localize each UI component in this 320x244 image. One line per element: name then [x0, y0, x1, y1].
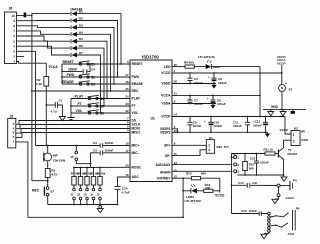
capacitor C12 100uF — [253, 117, 268, 133]
svg-text:P6: P6 — [296, 207, 300, 211]
wire REC net elbow — [32, 180, 48, 182]
wire ANAIN — [172, 170, 232, 172]
svg-text:K2: K2 — [294, 127, 298, 131]
wire VSSA row — [172, 103, 216, 105]
svg-text:PLAY: PLAY — [132, 97, 141, 101]
pushbutton S4 PLAY — [75, 94, 105, 101]
svg-text:P1: P1 — [289, 88, 293, 92]
wire SP+ — [172, 144, 206, 146]
svg-text:J3: J3 — [84, 193, 87, 197]
svg-text:J4: J4 — [90, 193, 93, 197]
svg-text:VCCP: VCCP — [280, 128, 288, 132]
resistor R4 10k — [71, 168, 80, 189]
wire J5 bottom to MIC- net — [76, 153, 130, 164]
svg-text:LED: LED — [164, 65, 171, 69]
wire mic top — [47, 146, 49, 154]
capacitor C1 4.7u — [46, 99, 62, 117]
svg-text:P4: P4 — [293, 179, 297, 183]
wire R13 to VCCD node — [201, 178, 220, 192]
resistor R6 10k — [84, 168, 93, 189]
svg-text:J5: J5 — [97, 193, 100, 197]
svg-text:25: 25 — [125, 87, 129, 91]
svg-text:D4: D4 — [79, 30, 83, 34]
wire button common left (RESET-ERASE) — [61, 64, 63, 84]
svg-text:ANAIN: ANAIN — [160, 171, 171, 175]
wire FT row — [71, 105, 130, 107]
capacitor C2 100nF — [93, 141, 114, 148]
svg-text:RESET: RESET — [132, 62, 143, 66]
wire D5 to PLAY net — [77, 41, 107, 98]
wire VCCA row — [172, 94, 260, 96]
wire VSSP2 bus — [172, 131, 268, 133]
svg-text:MIC+: MIC+ — [132, 144, 140, 148]
ground (VSSP bus) — [265, 133, 270, 137]
svg-text:C4: C4 — [91, 68, 95, 72]
svg-text:BC337: BC337 — [288, 152, 298, 156]
svg-text:T1: T1 — [288, 148, 292, 152]
wire D3 to ERASE net — [77, 27, 114, 84]
svg-text:MISO: MISO — [132, 131, 141, 135]
svg-text:100nF: 100nF — [233, 124, 242, 128]
node P2 pad 2 — [234, 163, 240, 167]
wire FWD row — [62, 76, 130, 78]
svg-text:24: 24 — [125, 95, 129, 99]
diode D6 — [71, 44, 83, 50]
wire PLAY row — [71, 98, 130, 100]
svg-text:S2: S2 — [91, 75, 95, 79]
capacitor C15 100nF — [250, 154, 269, 176]
svg-text:+: + — [204, 119, 206, 123]
svg-text:REC: REC — [32, 189, 40, 193]
svg-text:R9 600: R9 600 — [184, 60, 194, 64]
svg-text:1nF: 1nF — [252, 181, 258, 185]
diode D1 — [71, 10, 83, 16]
resistor R13 600 — [186, 172, 206, 180]
wire J6 pin6 to D5 — [17, 36, 71, 41]
wire ground bus bottom — [48, 204, 118, 206]
ground (VSSA) — [210, 105, 215, 109]
capacitor C13 1nF — [238, 181, 258, 188]
svg-text:500: 500 — [249, 166, 254, 170]
svg-text:VSSP2: VSSP2 — [160, 131, 171, 135]
pushbutton S3 ERASE — [62, 80, 95, 87]
wire REC column vertical — [31, 14, 33, 181]
svg-text:D2: D2 — [79, 17, 83, 21]
wire LED1 to VCC rail — [211, 66, 260, 68]
svg-text:RESET: RESET — [63, 60, 75, 64]
wire MIC- branch down — [90, 164, 92, 168]
svg-text:4.7k: 4.7k — [51, 173, 57, 177]
pushbutton S5 FT — [78, 102, 105, 109]
capacitor C4 220nF across S1 — [62, 64, 95, 74]
wire C10 row to jack — [232, 213, 268, 215]
wire D6 to FT net — [77, 48, 104, 106]
speaker connector K1 — [206, 136, 230, 154]
wire GND bus — [263, 108, 306, 110]
svg-text:AUX: AUX — [288, 232, 295, 236]
ground (GND arrow 1) — [268, 109, 274, 115]
wire aux column vertical — [231, 154, 233, 214]
svg-text:VCCP: VCCP — [277, 61, 285, 65]
svg-text:2: 2 — [208, 148, 210, 152]
wire amp input row — [232, 153, 266, 155]
svg-text:600: 600 — [201, 172, 206, 176]
connector P4 cinch — [275, 179, 297, 200]
resistor R12 600 — [204, 183, 213, 193]
wire R2 to mic node — [45, 86, 47, 146]
svg-text:4.7uF: 4.7uF — [122, 191, 130, 195]
capacitor C8 100uF — [207, 95, 226, 106]
svg-text:J1: J1 — [71, 193, 74, 197]
wire REC button to bus — [47, 196, 49, 205]
svg-text:SP+: SP+ — [164, 144, 170, 148]
svg-text:100uF: 100uF — [214, 124, 223, 128]
svg-text:VCCP: VCCP — [161, 115, 171, 119]
svg-text:C15: C15 — [250, 157, 256, 161]
svg-text:J2: J2 — [10, 114, 14, 118]
capacitor C3 100nF — [93, 148, 114, 155]
capacitor C11 100nF — [233, 117, 250, 133]
svg-text:VCCD: VCCD — [215, 193, 225, 197]
resistor R2 2.2k — [36, 63, 58, 86]
svg-text:100uF: 100uF — [253, 124, 262, 128]
wire AUD/AUX — [172, 163, 232, 165]
svg-text:C1: C1 — [59, 99, 63, 103]
wire J2 pin1 to ground — [16, 142, 183, 217]
diode D2 — [71, 17, 83, 23]
op-amp U1 ISD1700 IC body — [130, 55, 172, 182]
svg-text:R11 1k: R11 1k — [264, 148, 274, 152]
wire RESET row — [62, 63, 130, 65]
node VCCD VCCA VCCP labels — [277, 55, 286, 66]
wire LED row — [172, 66, 185, 68]
jumper J3 — [84, 188, 89, 204]
svg-text:100uF: 100uF — [217, 102, 226, 106]
diode D5 — [71, 37, 83, 43]
svg-text:1: 1 — [293, 133, 295, 137]
svg-text:220nF: 220nF — [68, 67, 77, 71]
jumper J5 (mic) — [70, 146, 77, 161]
wire J6 pin3 down to MIC node — [17, 51, 36, 145]
wire ERASE row — [62, 83, 130, 85]
pushbutton S1 RESET — [63, 60, 96, 67]
LED LED2 LTL42T1HC — [185, 184, 203, 203]
svg-text:4.7u: 4.7u — [51, 110, 57, 114]
wire SP- — [172, 150, 206, 156]
wire J2 pin3 to MOSI — [16, 129, 130, 134]
pushbutton S6 VOL — [76, 109, 105, 116]
wire R9 to LED1 — [194, 66, 205, 68]
svg-text:2: 2 — [293, 140, 295, 144]
svg-text:INT/RDY: INT/RDY — [157, 176, 171, 180]
svg-text:LTL42T1HC: LTL42T1HC — [198, 55, 216, 59]
svg-text:REC: REC — [132, 89, 140, 93]
ground (bus) — [97, 205, 103, 213]
svg-text:+: + — [285, 81, 287, 85]
ground (button common) — [67, 118, 74, 120]
transistor T1 BC337 — [275, 140, 297, 175]
svg-text:VOL: VOL — [132, 111, 139, 115]
jumper J2b — [77, 188, 82, 204]
wire amp ground row — [238, 174, 284, 176]
IC left pin labels — [132, 62, 144, 179]
svg-text:PLAY: PLAY — [75, 94, 84, 98]
resistor R11 1k — [264, 148, 276, 155]
jumper J4 — [90, 188, 95, 204]
svg-text:REL 75Y: REL 75Y — [217, 145, 230, 149]
svg-text:J5: J5 — [70, 155, 74, 159]
svg-text:100uF: 100uF — [218, 81, 227, 85]
wire VCCP row — [172, 116, 285, 118]
wire J2 pin2 to MISO — [16, 133, 130, 138]
capacitor C16 100nF — [241, 209, 261, 216]
svg-text:VOL: VOL — [76, 109, 83, 113]
svg-text:C16: C16 — [241, 209, 247, 213]
LED LED1 LTL42T1HC — [198, 55, 221, 69]
resistor R9 600 — [184, 60, 194, 68]
wire J6 pin1 VCCA feed — [17, 62, 47, 64]
ground (GND bar) — [292, 109, 294, 111]
wire button common left (PLAY-VOL) to ground — [70, 99, 72, 118]
capacitor C5 100nF — [187, 73, 202, 85]
svg-text:26: 26 — [125, 80, 129, 84]
wire VCCD row — [172, 72, 282, 74]
svg-text:18: 18 — [125, 142, 129, 146]
resistor R10 500 — [243, 154, 255, 176]
speaker connector K2 — [291, 127, 308, 146]
wire VSSP1 stub — [172, 129, 178, 133]
battery B1 — [279, 81, 293, 91]
microphone MP CM-15W — [44, 153, 65, 163]
ground (amp emitter) — [281, 177, 287, 181]
svg-text:100nF: 100nF — [194, 81, 203, 85]
wire LED2 row left — [183, 190, 191, 192]
svg-text:VCCD: VCCD — [161, 71, 171, 75]
jumper J1 — [71, 188, 76, 204]
jumper J5b — [97, 188, 102, 204]
IC right pin labels — [155, 65, 171, 181]
IC right pin numbers — [174, 63, 178, 179]
wire VOL row — [71, 112, 130, 114]
IC left pin numbers — [125, 60, 129, 177]
svg-text:VCCA: VCCA — [161, 94, 171, 98]
svg-text:2.2k: 2.2k — [36, 82, 42, 86]
svg-text:D5: D5 — [79, 37, 83, 41]
capacitor C10a 100uF — [204, 117, 223, 133]
svg-text:S3: S3 — [91, 82, 95, 86]
svg-text:ROSC: ROSC — [132, 166, 142, 170]
ground (GND arrow 2) — [280, 109, 286, 115]
svg-text:10: 10 — [12, 14, 16, 18]
svg-text:100nF: 100nF — [193, 124, 202, 128]
polarity mark on J6 pin 10 — [24, 13, 27, 18]
wire D1 to RESET net — [77, 14, 121, 64]
svg-text:15: 15 — [174, 169, 178, 173]
wire J6 pin9 to D2 — [17, 20, 71, 22]
svg-text:CM-15W: CM-15W — [53, 158, 65, 162]
svg-text:100nF: 100nF — [105, 148, 114, 152]
svg-text:S1: S1 — [91, 62, 95, 66]
wire ROSC / pullup top rail — [74, 166, 130, 168]
node P2 pad 1 — [231, 153, 239, 159]
svg-text:J2: J2 — [77, 193, 80, 197]
svg-text:D1: D1 — [79, 10, 83, 14]
wire J6 pin10 to D1 and REC column — [17, 14, 71, 16]
wire B1 to GND bus — [281, 91, 283, 109]
ground (VSSD) — [211, 85, 216, 89]
svg-text:+: + — [208, 75, 210, 79]
wire J6 pin2 stub — [17, 55, 25, 57]
svg-text:23: 23 — [125, 102, 129, 106]
wire VCCP to K2 — [285, 117, 291, 135]
capacitor C7 100nF — [187, 95, 202, 106]
wire jack sleeve to ground — [264, 232, 269, 233]
wire C13 row — [232, 184, 278, 186]
wire J6 pin7 to D4 — [17, 31, 71, 34]
svg-text:100nF: 100nF — [249, 209, 258, 213]
wire D4 to REC net — [77, 34, 111, 91]
svg-text:C2: C2 — [93, 141, 97, 145]
connector P6 jack — [268, 207, 300, 236]
ground (C1) — [59, 117, 65, 121]
wire J2 pin5 to SS — [16, 121, 130, 125]
svg-text:MP: MP — [53, 153, 58, 157]
ground (jack sleeve) — [261, 234, 267, 239]
node VCCD label — [213, 190, 220, 192]
svg-text:ERASE: ERASE — [132, 82, 144, 86]
svg-text:VSSD: VSSD — [162, 82, 172, 86]
svg-text:GND: GND — [271, 105, 279, 109]
svg-text:U1: U1 — [151, 117, 156, 121]
wire mic bottom to R3 — [47, 161, 49, 169]
svg-text:20: 20 — [125, 164, 129, 168]
resistor R3 4.7k — [45, 169, 57, 178]
pushbutton S7 REC — [32, 187, 54, 196]
wire J2 pin4 to SCLK — [16, 125, 130, 129]
wire LED2 to R12 — [197, 190, 204, 192]
svg-text:AUD/AUX: AUD/AUX — [155, 163, 171, 167]
capacitor C9 100nF — [187, 117, 201, 133]
diode D3 — [71, 23, 83, 29]
svg-text:FT: FT — [132, 104, 136, 108]
svg-text:S7: S7 — [50, 190, 54, 194]
svg-text:22: 22 — [125, 109, 129, 113]
wire D2 to FWD net — [77, 21, 118, 78]
svg-text:VCCA: VCCA — [49, 65, 59, 69]
svg-text:R13: R13 — [186, 172, 192, 176]
diode D4 — [71, 30, 83, 36]
svg-text:R8 10k: R8 10k — [97, 171, 106, 175]
capacitor C6 100uF — [208, 73, 227, 85]
ground (P4) — [272, 199, 278, 203]
svg-text:FWD: FWD — [132, 75, 140, 79]
wire MIC+ net — [36, 145, 131, 147]
diode D7 — [71, 51, 83, 57]
resistor R8 10k — [97, 168, 106, 189]
svg-text:J6: J6 — [9, 7, 13, 11]
wire REC row — [32, 90, 130, 92]
svg-text:LTL42T1HC: LTL42T1HC — [185, 199, 203, 203]
node P2 pad 3 — [234, 170, 240, 174]
svg-text:D7: D7 — [79, 51, 83, 55]
svg-text:C3: C3 — [93, 148, 97, 152]
resistor R5 10k — [77, 168, 86, 189]
svg-text:S4: S4 — [100, 97, 104, 101]
svg-text:K1: K1 — [209, 136, 213, 140]
wire INT/RDY row — [172, 177, 191, 179]
svg-text:ISD1700: ISD1700 — [142, 55, 159, 60]
svg-text:C13: C13 — [238, 181, 244, 185]
svg-text:D6: D6 — [79, 44, 83, 48]
svg-text:27: 27 — [125, 73, 129, 77]
svg-text:0.5W: 0.5W — [301, 138, 308, 142]
svg-text:17: 17 — [125, 149, 129, 153]
connector J6 — [5, 7, 17, 64]
capacitor C14 4.7uF (AGC) — [115, 177, 131, 205]
wire VCC rail vertical — [259, 67, 261, 117]
svg-text:VSSA: VSSA — [162, 102, 172, 106]
wire J6 pin5 to D6 — [17, 41, 71, 48]
wire R3 bottom to REC button — [47, 178, 49, 187]
svg-text:AGC: AGC — [132, 175, 140, 179]
svg-text:600: 600 — [205, 186, 210, 190]
wire D7 to VOL net — [77, 55, 101, 113]
svg-text:1: 1 — [208, 143, 210, 147]
pushbutton S2 FWD — [67, 73, 96, 80]
svg-text:100nF: 100nF — [105, 141, 114, 145]
connector J2 — [8, 114, 16, 147]
svg-text:FWD: FWD — [67, 73, 75, 77]
svg-text:SP-: SP- — [165, 154, 171, 158]
wire VSSD row — [172, 83, 216, 85]
wire J6 pin4 to D7 — [17, 46, 71, 55]
wire J6 pin8 to D3 — [17, 26, 71, 28]
svg-text:Cinch: Cinch — [286, 196, 295, 200]
svg-text:+: + — [207, 97, 209, 101]
svg-text:100nF: 100nF — [194, 102, 203, 106]
svg-text:MIC-: MIC- — [132, 151, 139, 155]
wire VCC node to B1 — [281, 65, 283, 85]
resistor R7 10k — [90, 168, 99, 189]
svg-text:D3: D3 — [79, 23, 83, 27]
svg-text:16: 16 — [125, 173, 129, 177]
svg-text:ERASE: ERASE — [62, 80, 74, 84]
svg-text:100nF: 100nF — [260, 161, 269, 165]
wire LED2 column to ground bus2 — [182, 178, 184, 217]
